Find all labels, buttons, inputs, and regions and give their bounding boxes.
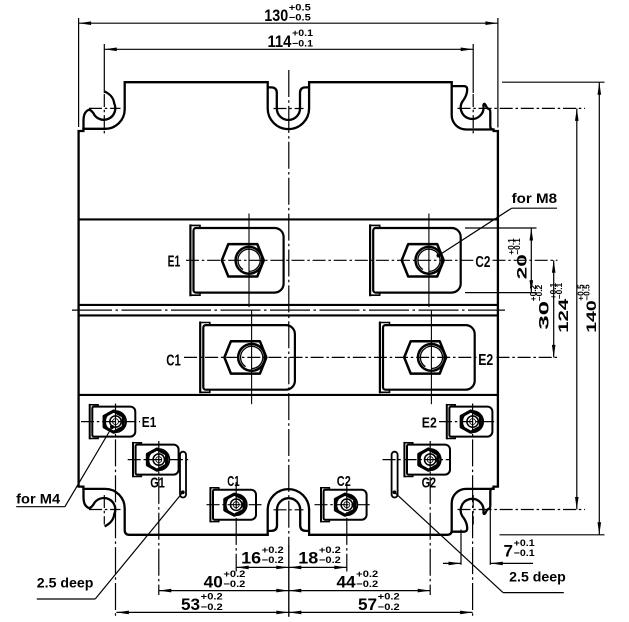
svg-text:C1: C1 (166, 352, 181, 369)
row1 centerline (186, 259, 474, 261)
dim 30 right (553, 260, 555, 357)
small terminal E2 (447, 404, 493, 439)
svg-text:−0.2: −0.2 (201, 602, 223, 613)
section line mid pair (79, 304, 498, 306)
dim 130 top (78, 18, 80, 127)
svg-text:2.5 deep: 2.5 deep (37, 574, 94, 590)
small terminal G1 (133, 442, 179, 477)
svg-text:for M8: for M8 (512, 190, 558, 206)
dim 124 right (576, 108, 578, 509)
module vertical centerline (288, 70, 290, 545)
leader for M8 (512, 207, 557, 209)
leader 2.5 deep left (37, 598, 95, 600)
svg-text:57: 57 (358, 595, 377, 614)
dim 114 (104, 48, 473, 50)
svg-text:−0.2: −0.2 (262, 555, 284, 566)
mid centerline (72, 309, 505, 311)
svg-text:−0.1: −0.1 (514, 548, 536, 559)
bottom-right mounting slot (452, 488, 493, 531)
svg-text:C2: C2 (337, 473, 351, 490)
svg-text:−0.2: −0.2 (378, 602, 400, 613)
terminal C2 (370, 214, 461, 308)
svg-text:140: 140 (584, 300, 599, 333)
dim 20 right (465, 227, 537, 229)
svg-text:44: 44 (337, 573, 357, 592)
leader for M4 (16, 506, 65, 508)
gate slot G2 (2.5 deep) (392, 452, 398, 498)
svg-text:−0.2: −0.2 (356, 579, 378, 590)
small terminal centerlines (81, 421, 140, 423)
svg-text:−0.1: −0.1 (292, 38, 314, 49)
dim 40 / 44 (159, 590, 430, 592)
top-right mounting slot (452, 86, 493, 129)
svg-text:30: 30 (536, 301, 551, 330)
dim 7 bottom right (460, 530, 462, 565)
svg-text:124: 124 (556, 298, 571, 333)
svg-text:20: 20 (514, 254, 529, 279)
svg-text:for M4: for M4 (16, 491, 60, 507)
svg-text:E2: E2 (478, 352, 493, 369)
top U-notch inner slot (268, 87, 309, 120)
svg-text:2.5 deep: 2.5 deep (509, 569, 566, 585)
terminal E1 (190, 214, 283, 308)
svg-text:130: 130 (264, 6, 288, 25)
small terminal C1 (210, 487, 256, 522)
svg-text:−0.2: −0.2 (223, 579, 245, 590)
svg-text:−0.2: −0.2 (319, 555, 341, 566)
svg-text:7: 7 (504, 541, 514, 560)
terminal E2 (380, 311, 475, 405)
svg-text:40: 40 (204, 573, 223, 592)
dim 53 / 57 (116, 611, 472, 613)
svg-text:E2: E2 (422, 414, 437, 431)
svg-text:16: 16 (241, 548, 261, 567)
svg-text:−0.1: −0.1 (555, 282, 564, 299)
svg-text:E1: E1 (142, 414, 157, 431)
notch centerlines top (103, 44, 105, 93)
section line lower (79, 394, 498, 396)
svg-text:53: 53 (181, 595, 200, 614)
svg-text:E1: E1 (168, 254, 181, 271)
svg-text:G2: G2 (422, 475, 437, 492)
svg-text:C2: C2 (475, 254, 490, 271)
dim 16 / 18 bottom (236, 566, 347, 568)
svg-text:G1: G1 (150, 475, 165, 492)
row2 centerline (184, 356, 477, 358)
U-notch crosshairs (274, 108, 304, 110)
bottom-left mounting slot (84, 489, 116, 526)
module body outline (79, 82, 498, 535)
terminal C1 (200, 311, 295, 405)
leader 2.5 deep right (503, 592, 564, 594)
svg-text:18: 18 (298, 548, 318, 567)
small terminal E1 (90, 404, 136, 439)
top-left mounting slot (84, 92, 116, 129)
small terminal C2 (321, 487, 367, 522)
svg-text:C1: C1 (227, 473, 239, 490)
dim 140 right (502, 81, 605, 83)
svg-text:−0.1: −0.1 (513, 238, 522, 255)
svg-text:−0.5: −0.5 (289, 13, 312, 24)
svg-text:−0.5: −0.5 (583, 284, 592, 301)
bottom U-notch inner slot (268, 498, 309, 531)
svg-text:−0.2: −0.2 (535, 284, 544, 301)
svg-text:114: 114 (268, 32, 292, 51)
small terminal G2 (404, 442, 450, 477)
notch centerlines bottom (103, 495, 105, 525)
gate slot G1 (2.5 deep) (180, 452, 186, 498)
section line upper (79, 218, 498, 220)
